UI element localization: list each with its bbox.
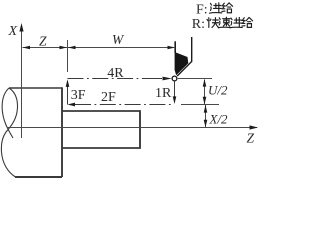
svg-text:W: W xyxy=(112,32,125,47)
workpiece small cylinder (turned section) xyxy=(62,110,140,149)
dim arrow pointing left from x=68 xyxy=(68,46,76,49)
3F feed-up line xyxy=(67,82,69,105)
1R arrowhead down xyxy=(173,96,177,104)
4R arrowhead into start point xyxy=(163,77,172,81)
tool holder right edge xyxy=(177,37,192,76)
dimension line Z (22..68) and W (68..175) xyxy=(23,47,175,49)
X axis arrowhead xyxy=(19,23,23,32)
Z axis arrowhead xyxy=(250,125,259,129)
tool insert (black) xyxy=(175,52,189,75)
workpiece large cylinder outline xyxy=(1,87,62,177)
tool holder left edge xyxy=(174,41,176,53)
svg-text:Z: Z xyxy=(247,131,255,146)
svg-text:R:: R: xyxy=(192,17,205,32)
svg-text:4R: 4R xyxy=(107,66,124,81)
dim arrow left at X axis xyxy=(23,46,31,49)
svg-text:U/2: U/2 xyxy=(208,83,228,98)
extension line at cut level (y=104.3) xyxy=(181,104,219,106)
centerline / Z axis xyxy=(7,127,257,129)
X axis line xyxy=(21,26,23,138)
svg-text:Z: Z xyxy=(39,33,47,48)
svg-text:2F: 2F xyxy=(101,90,116,105)
svg-text:1R: 1R xyxy=(155,86,172,101)
4R rapid path (dash-dot) xyxy=(68,78,161,80)
3F arrowhead up xyxy=(66,79,70,87)
svg-text:3F: 3F xyxy=(71,88,86,103)
extension line from start point (top, y=78.8) xyxy=(178,78,212,80)
dim arrow pointing right into x=68 xyxy=(60,46,68,49)
2F cut path (dash-dot) with left arrow xyxy=(75,104,172,106)
1R plunge line xyxy=(174,82,176,102)
U/2 dimension line xyxy=(204,80,206,105)
svg-text:X/2: X/2 xyxy=(209,111,229,126)
svg-text:X: X xyxy=(8,24,18,39)
tool tip circle (cycle start point) xyxy=(172,76,177,81)
break line S-curve xyxy=(1,88,17,177)
dimension extension line at x=68 xyxy=(67,40,69,72)
X/2 dimension line xyxy=(205,105,207,127)
svg-text:F:: F: xyxy=(196,2,208,17)
dim arrow right at tool edge xyxy=(168,46,176,49)
break line lens left arc xyxy=(2,88,13,138)
